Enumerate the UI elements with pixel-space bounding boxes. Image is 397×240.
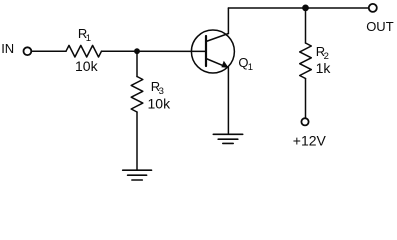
svg-text:IN: IN [1, 41, 14, 56]
wire [305, 8, 307, 43]
resistor R3 [131, 77, 143, 113]
label R2 [316, 44, 329, 62]
resistor R2 [300, 43, 312, 79]
label Q1 [238, 55, 253, 73]
ground (R3 branch) [123, 170, 152, 180]
wire collector [227, 8, 229, 34]
node junction [134, 48, 140, 54]
wire [136, 51, 138, 76]
svg-text:10k: 10k [148, 95, 172, 111]
wire emitter [227, 68, 229, 135]
wire [102, 50, 207, 52]
svg-text:+12V: +12V [293, 132, 327, 148]
svg-text:1: 1 [248, 62, 253, 73]
svg-text:OUT: OUT [366, 19, 394, 34]
terminal IN [24, 47, 32, 55]
wire top rail [228, 7, 368, 9]
label R3 [151, 79, 164, 97]
node junction [302, 5, 309, 12]
resistor R1 [66, 45, 102, 57]
ground (emitter) [213, 134, 242, 143]
svg-text:1k: 1k [316, 60, 332, 76]
transistor Q1 [191, 30, 234, 73]
terminal +12V [301, 118, 308, 125]
svg-text:1: 1 [86, 33, 91, 44]
wire [136, 112, 138, 170]
wire [32, 50, 66, 52]
svg-text:10k: 10k [75, 58, 99, 74]
wire [305, 79, 307, 118]
terminal OUT [369, 4, 377, 12]
label R1 [78, 26, 91, 44]
